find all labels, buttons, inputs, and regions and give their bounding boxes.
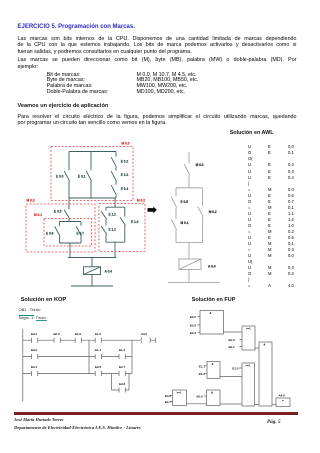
AWL code listing: ops column — [248, 144, 253, 289]
contact M0.1 — [171, 219, 176, 242]
svg-text:E0.1: E0.1 — [31, 365, 38, 369]
rung 3 wire — [23, 373, 132, 375]
AWL address column — [288, 144, 294, 289]
svg-text:E0.6: E0.6 — [165, 394, 172, 398]
wire drop to M0.2 group — [114, 198, 116, 207]
svg-text:E1.0: E1.0 — [95, 332, 102, 336]
wire AND E1.1 E1.2 out to tall OR — [220, 375, 242, 377]
wire drop to coil — [188, 243, 190, 260]
contact E0.6 — [119, 388, 125, 393]
svg-text:E0.7: E0.7 — [165, 400, 172, 404]
wire OR E0.6 E0.7 out to AND E0.5 — [187, 403, 207, 405]
svg-text:E0.2: E0.2 — [190, 315, 197, 319]
svg-text:E 0.5: E 0.5 — [181, 200, 189, 204]
junction vertical left group — [88, 340, 90, 373]
wire below coil — [188, 270, 190, 283]
wire tall OR out to final AND — [255, 403, 260, 405]
svg-text:E1.2: E1.2 — [199, 372, 206, 376]
wire bottom rail — [71, 285, 113, 287]
svg-text:M 0.1: M 0.1 — [34, 213, 42, 217]
wire parallel top bar — [176, 187, 203, 189]
contact E0.0 — [64, 152, 69, 199]
mark box M0.1 — [44, 219, 92, 247]
input ticks AND E1.1 E1.2 — [205, 366, 208, 374]
svg-text:E 0.2: E 0.2 — [121, 160, 129, 164]
svg-text:>=1: >=1 — [246, 326, 251, 330]
rung 2 wire — [23, 356, 132, 358]
contact E1.2 — [119, 354, 125, 359]
tick E1.0 into tall OR — [239, 367, 242, 369]
wire drop from M0.1 group — [69, 243, 71, 258]
input ticks OR E0.6 E0.7 — [170, 395, 173, 401]
red dashed mark boxes — [26, 147, 145, 253]
paragraph 1 line 2 — [18, 42, 297, 48]
left power rail — [22, 329, 24, 402]
contact M0.2 — [198, 188, 203, 243]
input ticks block1 — [198, 317, 201, 333]
paragraph 2 line 2 — [18, 64, 38, 70]
svg-text:M 0.0: M 0.0 — [122, 141, 130, 145]
svg-text:E0.5: E0.5 — [197, 395, 204, 399]
svg-text:M 0.1: M 0.1 — [181, 221, 189, 225]
wire bottom bus — [69, 197, 116, 199]
contact E1.0 — [120, 207, 125, 242]
contact E0.0 — [32, 354, 38, 359]
svg-text:M 0.0: M 0.0 — [196, 163, 204, 167]
paragraph 3 line 1 — [18, 114, 297, 120]
svg-text:E 0.0: E 0.0 — [56, 174, 64, 178]
svg-text:E0.0: E0.0 — [229, 338, 236, 342]
svg-text:E 0.3: E 0.3 — [121, 173, 129, 177]
svg-text:A 0.4: A 0.4 — [208, 264, 216, 268]
svg-text:M 0.2: M 0.2 — [209, 210, 217, 214]
contact E0.6 — [55, 222, 60, 244]
paragraph 3 line 2 — [18, 120, 167, 126]
svg-text:E0.3: E0.3 — [54, 332, 61, 336]
heading solucion AWL — [230, 130, 274, 136]
footer author — [14, 417, 63, 422]
block assign A4.0 — [276, 398, 290, 407]
Segm. 1 titulo line — [19, 315, 47, 320]
block tall OR M0.2+M0.3 — [242, 363, 255, 406]
paragraph 1 line 1 — [18, 36, 297, 42]
svg-text:E 1.2: E 1.2 — [109, 228, 117, 232]
contact E1.1 — [95, 354, 101, 359]
svg-text:E0.5: E0.5 — [95, 365, 102, 369]
contact E0.1 — [86, 152, 91, 199]
contact E1.2 — [101, 226, 106, 242]
paragraph 1 line 3 — [18, 49, 192, 55]
block AND E0.5 M0.1 — [207, 390, 221, 406]
wire parallel bottom bar — [176, 242, 203, 244]
Segm. 1 teal rule — [19, 314, 34, 317]
paragraph 2 line 1 — [18, 57, 297, 63]
contact E0.1 — [32, 371, 38, 376]
svg-text:M 0.3: M 0.3 — [27, 198, 35, 202]
svg-text:>=1: >=1 — [246, 363, 251, 367]
svg-text:>=1: >=1 — [177, 390, 182, 394]
wire drop to coil — [91, 258, 93, 267]
svg-text:&: & — [210, 311, 212, 315]
input ticks OR M0.0 — [240, 340, 243, 347]
wire top bus — [69, 151, 116, 153]
svg-text:E 1.1: E 1.1 — [109, 213, 117, 217]
contact M0.0 — [184, 152, 189, 188]
contact E0.5 — [64, 210, 69, 222]
rung 1 wire — [23, 339, 156, 341]
footer page number — [267, 419, 281, 425]
svg-text:E0.1: E0.1 — [229, 345, 236, 349]
contact E0.3 — [111, 171, 116, 184]
contact E0.5 (simplified) — [171, 188, 176, 219]
branch rung 4 wire — [112, 374, 130, 391]
wire M0.2 group top bar — [106, 206, 125, 208]
footer rule — [14, 412, 298, 415]
svg-text:A 0.4: A 0.4 — [105, 270, 113, 274]
wire main collector bus — [68, 257, 116, 259]
heading veamos — [18, 103, 109, 109]
contact E0.7 — [119, 371, 125, 376]
mark box M0.0 — [51, 147, 133, 201]
coil A0.4 simplified — [179, 259, 201, 270]
block AND E0.2 E0.3 E0.4 — [200, 311, 224, 335]
svg-text:E0.4: E0.4 — [75, 332, 82, 336]
wire M0.1 group top bar — [60, 221, 82, 223]
wire block1 out to OR M0.0 — [224, 331, 243, 333]
svg-text:E0.3: E0.3 — [190, 323, 197, 327]
contact E0.5 — [95, 371, 101, 376]
block OR M0.0 — [242, 326, 255, 350]
svg-text:E 1.0: E 1.0 — [131, 220, 139, 224]
svg-text:E 0.5: E 0.5 — [54, 209, 62, 213]
svg-text:E 0.1: E 0.1 — [78, 174, 86, 178]
svg-text:M 0.2: M 0.2 — [137, 198, 145, 202]
wire bottom rail — [168, 282, 220, 284]
svg-text:E1.0: E1.0 — [232, 367, 239, 371]
svg-text:E 0.6: E 0.6 — [46, 231, 54, 235]
wire drop to E0.5 — [68, 198, 70, 209]
block final AND — [259, 342, 272, 406]
contact E0.4 — [111, 185, 116, 198]
svg-text:E 0.7: E 0.7 — [77, 231, 85, 235]
svg-text:E1.1: E1.1 — [95, 348, 102, 352]
svg-text:E0.2: E0.2 — [31, 332, 38, 336]
contact E0.7 — [76, 222, 81, 244]
coil A4.0 — [141, 338, 156, 343]
wire OR M0.0 out to final AND — [255, 347, 259, 349]
svg-text:E0.6: E0.6 — [119, 382, 126, 386]
wire below coil — [91, 275, 93, 287]
block OR E0.6 E0.7 — [173, 390, 187, 406]
labels of left circuit — [46, 160, 139, 274]
arrow between circuits — [148, 207, 157, 214]
AWL operand column — [268, 144, 272, 289]
tick E0.5 into AND — [204, 395, 207, 397]
mark box M0.3 — [26, 204, 95, 252]
wire M0.1 group bottom bar — [60, 242, 82, 244]
svg-text:&: & — [264, 342, 266, 346]
contact E0.2 — [111, 152, 116, 171]
heading solucion KOP — [21, 297, 66, 303]
wire final AND out to assign block — [272, 403, 276, 405]
footer dept — [14, 425, 141, 430]
contact E1.1 — [101, 207, 106, 225]
heading solucion FUP — [192, 297, 236, 303]
svg-text:E0.4: E0.4 — [190, 331, 197, 335]
svg-text:A4.0: A4.0 — [279, 393, 286, 397]
wire M0.2 group bottom bar — [106, 241, 125, 243]
list of mark types — [47, 73, 109, 96]
mark box M0.2 — [99, 204, 145, 252]
contact E1.0 — [95, 338, 101, 343]
OB1 titulo line — [19, 307, 41, 312]
svg-text:E 0.4: E 0.4 — [121, 187, 129, 191]
wire drop from M0.2 group — [114, 242, 116, 257]
svg-text:A4.0: A4.0 — [141, 332, 148, 336]
contact E0.4 — [75, 338, 81, 343]
svg-text:E1.1: E1.1 — [199, 364, 206, 368]
contact E0.3 — [54, 338, 60, 343]
svg-text:=: = — [282, 398, 284, 402]
svg-text:&: & — [212, 362, 214, 366]
coil A0.4 (relay box) — [84, 267, 101, 275]
junction vertical right group — [131, 340, 133, 373]
contact E0.2 — [32, 338, 38, 343]
svg-text:E1.2: E1.2 — [119, 348, 126, 352]
svg-text:&: & — [211, 390, 213, 394]
wire AND E0.5 out to tall OR — [220, 403, 242, 405]
title — [18, 24, 135, 30]
svg-text:E0.0: E0.0 — [31, 348, 38, 352]
block AND E1.1 E1.2 — [207, 362, 220, 379]
svg-text:E0.7: E0.7 — [119, 365, 126, 369]
